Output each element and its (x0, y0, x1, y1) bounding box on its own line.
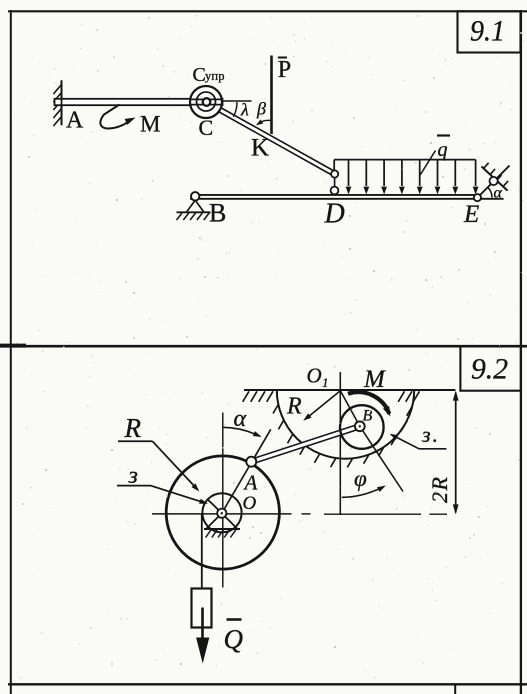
svg-text:упр: упр (205, 69, 225, 83)
svg-text:B: B (209, 199, 226, 228)
svg-text:λ: λ (240, 100, 249, 120)
svg-text:з.: з. (421, 422, 438, 447)
svg-text:A: A (66, 108, 84, 134)
svg-text:q: q (438, 139, 448, 161)
svg-text:A: A (243, 471, 258, 495)
svg-text:α: α (234, 406, 247, 432)
svg-text:1: 1 (322, 375, 329, 390)
svg-text:R: R (124, 413, 142, 443)
svg-text:C: C (193, 64, 206, 86)
svg-text:2R: 2R (427, 476, 452, 503)
svg-text:E: E (463, 201, 479, 228)
svg-text:M: M (140, 112, 160, 137)
svg-text:β: β (256, 99, 266, 119)
svg-text:α: α (494, 185, 503, 202)
svg-text:9.1: 9.1 (470, 15, 505, 48)
svg-text:O: O (307, 364, 322, 388)
svg-text:O: O (243, 493, 257, 514)
svg-text:M: M (363, 366, 386, 393)
svg-text:D: D (324, 199, 345, 230)
svg-text:Q: Q (224, 624, 244, 654)
svg-text:C: C (199, 115, 214, 140)
svg-text:R: R (286, 394, 302, 420)
svg-text:9.2: 9.2 (471, 353, 508, 386)
svg-text:K: K (251, 135, 269, 162)
svg-text:з: з (128, 463, 138, 489)
svg-text:φ: φ (354, 466, 367, 491)
svg-text:P: P (278, 57, 291, 83)
